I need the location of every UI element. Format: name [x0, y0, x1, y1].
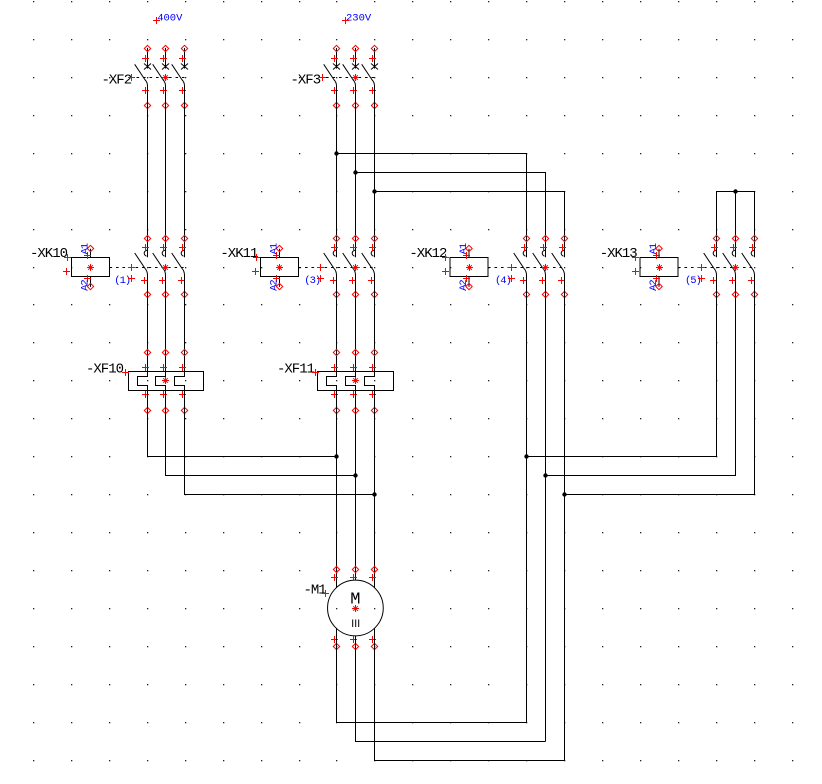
junction on XF3 output phase 3 — [372, 189, 376, 193]
wire XF2 pole3 to XK10 contact 3 — [184, 86, 186, 257]
wire XF10 pole 1 output joining phase bus 1 — [148, 391, 337, 457]
wire branch phase 1 from XF3 output to XK12 contact 1 — [337, 154, 527, 258]
svg-text:(5): (5) — [685, 275, 701, 287]
contactor -XK10 main contacts (3-pole) — [135, 235, 188, 297]
svg-text:-XF3: -XF3 — [291, 73, 321, 89]
wire XK12 contact 2 down to motor return row 2 — [545, 276, 547, 742]
wire XK10 contact 1 to XF10 pole 1 — [147, 276, 149, 372]
svg-text:-XF2: -XF2 — [102, 73, 132, 89]
wire XK12 contact 3 down to motor return row 3 — [564, 276, 566, 761]
wire XK13 contact 2 across to XK12 wire 2 — [546, 276, 736, 476]
svg-text:-XK13: -XK13 — [600, 246, 638, 262]
wire XK13 contact 1 across to XK12 wire 1 — [527, 276, 717, 457]
junction phase 1: XF10 branch joins motor feed — [334, 454, 338, 458]
node 400V supply label — [153, 13, 183, 25]
junction XK13 row joins XK12 wire 1 — [524, 454, 528, 458]
wire XK11 contact 2 to XF11 pole 2 — [355, 276, 357, 372]
thermal overload relay -XF10 (3-pole) — [86, 349, 204, 413]
wire XF11 pole 1 down to motor terminal 1 — [336, 391, 338, 588]
wire star-point bus above XK13 contacts — [717, 192, 755, 258]
junction phase 3: XF10 branch joins motor feed — [372, 492, 376, 496]
wire XK11 contact 1 to XF11 pole 1 — [336, 276, 338, 372]
circuit breaker -XF3 (3-pole, 230V) — [291, 45, 379, 108]
svg-text:-XK10: -XK10 — [30, 246, 68, 262]
svg-text:A2: A2 — [648, 280, 660, 291]
svg-text:A1: A1 — [648, 243, 660, 254]
svg-text:-XK11: -XK11 — [220, 246, 258, 262]
wire XF3 pole3 to XK11 contact 3 — [374, 86, 376, 257]
contactor coil -XK10 with pins A1/A2 — [30, 243, 185, 291]
wire XK12 contact 1 down to motor return row 1 — [526, 276, 528, 723]
svg-text:A1: A1 — [268, 243, 280, 254]
wire XF11 pole 3 down to motor terminal 3 — [374, 391, 376, 588]
motor -M1 (3-phase, circle symbol) — [304, 566, 384, 649]
wire XK13 contact 3 across to XK12 wire 3 — [565, 276, 755, 495]
node 230V supply label — [342, 13, 372, 25]
svg-text:A1: A1 — [458, 243, 470, 254]
thermal overload relay -XF11 (3-pole) — [277, 349, 394, 413]
junction XK13 row joins XK12 wire 2 — [543, 473, 547, 477]
contactor coil -XK11 with pins A1/A2 — [220, 243, 374, 291]
svg-text:A2: A2 — [458, 280, 470, 291]
svg-text:-M1: -M1 — [304, 582, 327, 598]
contactor -XK11 main contacts (3-pole) — [324, 235, 378, 297]
wire branch phase 3 from XF3 output to XK12 contact 3 — [375, 192, 565, 258]
svg-text:400V: 400V — [157, 13, 183, 25]
junction on XF3 output phase 2 — [353, 170, 357, 174]
wire XK10 contact 2 to XF10 pole 2 — [165, 276, 167, 372]
wire XF2 pole2 to XK10 contact 2 — [165, 86, 167, 257]
wire XF3 pole2 to XK11 contact 2 — [355, 86, 357, 257]
wire XF10 pole 3 output joining phase bus 3 — [185, 391, 375, 495]
contactor -XK13 main contacts (3-pole) — [704, 235, 758, 297]
wire XK11 contact 3 to XF11 pole 3 — [374, 276, 376, 372]
junction on XF3 output phase 1 — [334, 151, 338, 155]
wire motor terminal 1 return to XK12/XK13 1 — [337, 628, 527, 722]
svg-text:-XK12: -XK12 — [409, 246, 447, 262]
wire XF10 pole 2 output joining phase bus 2 — [166, 391, 356, 476]
wire motor terminal 2 return to XK12/XK13 2 — [356, 636, 546, 742]
svg-text:A2: A2 — [79, 280, 91, 291]
contactor -XK12 main contacts (3-pole) — [514, 235, 568, 297]
svg-text:A1: A1 — [79, 243, 91, 254]
svg-text:(3): (3) — [304, 275, 320, 287]
svg-text:-XF10: -XF10 — [86, 362, 124, 378]
circuit breaker -XF2 (3-pole, 400V) — [102, 45, 189, 108]
svg-text:A2: A2 — [268, 280, 280, 291]
wire motor terminal 3 return to XK12/XK13 3 — [375, 628, 565, 760]
svg-text:-XF11: -XF11 — [277, 362, 315, 378]
contactor coil -XK13 with pins A1/A2 — [600, 243, 755, 291]
contactor coil -XK12 with pins A1/A2 — [409, 243, 564, 291]
wire XF2 pole1 to XK10 contact 1 — [147, 86, 149, 257]
wire XF3 pole1 to XK11 contact 1 — [336, 86, 338, 257]
svg-text:230V: 230V — [346, 13, 372, 25]
svg-text:(1): (1) — [114, 275, 130, 287]
wire XK10 contact 3 to XF10 pole 3 — [184, 276, 186, 372]
wire XF11 pole 2 down to motor terminal 2 — [355, 391, 357, 581]
junction star bus middle pole — [733, 189, 737, 193]
wire branch phase 2 from XF3 output to XK12 contact 2 — [356, 173, 546, 258]
junction XK13 row joins XK12 wire 3 — [562, 492, 566, 496]
junction phase 2: XF10 branch joins motor feed — [353, 473, 357, 477]
svg-text:(4): (4) — [495, 275, 511, 287]
